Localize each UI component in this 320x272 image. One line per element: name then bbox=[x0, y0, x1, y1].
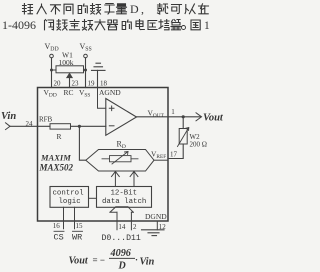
svg-text:control: control bbox=[53, 190, 85, 198]
svg-text:Vout: Vout bbox=[69, 256, 89, 267]
arrows latch to ladder bbox=[112, 172, 120, 187]
junction dot VDD-pot bbox=[50, 69, 53, 72]
VDD supply terminal bbox=[45, 42, 59, 58]
svg-text:,: , bbox=[141, 2, 144, 16]
AGND ground symbol (inverted, above pin 18) bbox=[92, 63, 106, 87]
svg-text:CS: CS bbox=[54, 233, 64, 243]
svg-text:1: 1 bbox=[204, 20, 210, 32]
svg-text:R: R bbox=[57, 132, 62, 141]
svg-text:Ω: Ω bbox=[202, 141, 207, 149]
svg-text:VSS: VSS bbox=[79, 88, 90, 98]
digital ground symbol bbox=[142, 230, 165, 236]
svg-text:DGND: DGND bbox=[145, 212, 167, 221]
svg-text:23: 23 bbox=[72, 80, 80, 88]
svg-text:D: D bbox=[118, 261, 126, 272]
svg-text:16: 16 bbox=[53, 222, 61, 230]
svg-text:2: 2 bbox=[133, 223, 137, 231]
svg-text:VDD: VDD bbox=[44, 88, 57, 98]
svg-text:VDD: VDD bbox=[45, 42, 59, 53]
svg-text:data latch: data latch bbox=[102, 198, 146, 206]
wire Vout external with arrow bbox=[168, 116, 201, 118]
svg-text:1: 1 bbox=[171, 108, 175, 116]
junction dot VSS-pot bbox=[84, 69, 87, 72]
svg-text:RC: RC bbox=[64, 88, 74, 97]
paragraph text line 1 (hanzi drawn as strokes) bbox=[23, 2, 209, 16]
svg-text:4096: 4096 bbox=[110, 248, 132, 259]
svg-text:12-Bit: 12-Bit bbox=[111, 190, 138, 198]
WR pin 15 bbox=[74, 207, 76, 228]
svg-text:RFB: RFB bbox=[39, 116, 53, 124]
wire Vin to RFB bbox=[10, 125, 50, 127]
svg-text:RD: RD bbox=[117, 140, 126, 151]
svg-text:14: 14 bbox=[118, 223, 126, 231]
svg-text:17: 17 bbox=[170, 151, 178, 159]
node A junction dot bbox=[78, 125, 81, 128]
trimmer W2 200 ohm bbox=[182, 117, 184, 129]
svg-text:18: 18 bbox=[100, 80, 108, 88]
pin 12 line bbox=[156, 221, 158, 230]
svg-text:20: 20 bbox=[54, 80, 62, 88]
svg-text:15: 15 bbox=[76, 222, 84, 230]
svg-text:1-4096: 1-4096 bbox=[2, 18, 36, 32]
svg-text:VOUT: VOUT bbox=[148, 109, 165, 119]
svg-text:D0...D11: D0...D11 bbox=[102, 234, 141, 243]
VOUT wire op-amp to pin 1 bbox=[137, 116, 169, 118]
svg-text:19: 19 bbox=[88, 80, 96, 88]
svg-text:·: · bbox=[135, 255, 138, 265]
wire R to op-amp minus bbox=[71, 125, 106, 127]
svg-text:200: 200 bbox=[190, 141, 201, 149]
data bus arrow into latch bbox=[110, 207, 133, 213]
wire control to latch bbox=[89, 197, 97, 199]
wire node A down to ladder bbox=[79, 126, 85, 160]
svg-text:logic: logic bbox=[59, 198, 81, 206]
op-amp U1 bbox=[106, 99, 137, 136]
wire AGND internal to op-amp + bbox=[98, 88, 106, 109]
svg-text:Vin: Vin bbox=[1, 111, 16, 122]
svg-text:= −: = − bbox=[93, 255, 106, 265]
svg-text:VSS: VSS bbox=[80, 42, 92, 53]
svg-text:D: D bbox=[130, 2, 139, 16]
formula Vout = -4096/D * Vin bbox=[69, 248, 155, 272]
node B junction dot bbox=[182, 115, 185, 118]
wire VSS vertical (pin 19) bbox=[85, 58, 87, 88]
paragraph text line 2 bbox=[2, 18, 210, 32]
12-bit data latch box bbox=[97, 187, 152, 208]
pin 2 line bbox=[130, 212, 132, 230]
pin 14 line bbox=[116, 212, 118, 230]
wire ladder to VREF pin 17 bbox=[154, 159, 168, 161]
svg-text:Vout: Vout bbox=[203, 113, 224, 124]
CS pin 16 bbox=[63, 207, 65, 228]
wire VDD vertical (pin 20) bbox=[51, 58, 53, 88]
svg-text:MAXIM: MAXIM bbox=[40, 153, 71, 163]
IC box MAX502 bbox=[38, 88, 169, 222]
svg-text:VREF: VREF bbox=[151, 150, 166, 160]
VSS supply terminal bbox=[80, 42, 92, 58]
adjustable resistor inside ladder bbox=[102, 158, 138, 160]
potentiometer W1 100k bbox=[52, 51, 86, 88]
svg-text:AGND: AGND bbox=[99, 88, 121, 97]
svg-text:MAX502: MAX502 bbox=[39, 163, 74, 173]
control logic box bbox=[50, 187, 89, 208]
svg-text:Vin: Vin bbox=[140, 257, 155, 268]
svg-text:WR: WR bbox=[72, 233, 82, 243]
